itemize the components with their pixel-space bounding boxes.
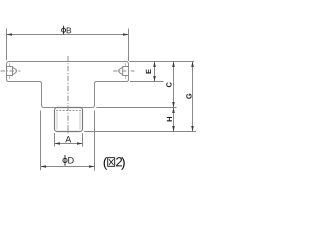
dim phiB arrow right: [123, 33, 129, 36]
part silhouette: flange + boss: [7, 62, 129, 108]
caption zu glyph box: [108, 158, 115, 167]
main vertical centerline: [67, 56, 69, 135]
dim phiB extension line right: [128, 29, 130, 62]
dim G dimension line: [192, 62, 194, 132]
dim H arrows: [172, 108, 175, 132]
dim phiD arrows: [41, 165, 95, 168]
dim G arrows: [191, 62, 194, 132]
left set screw: [7, 67, 17, 76]
dim phiB arrow left: [7, 33, 13, 36]
stub inner top line: [56, 110, 81, 112]
dim phiD extension lines: [41, 111, 95, 171]
svg-text:E: E: [144, 69, 153, 74]
label phiB: [62, 25, 72, 35]
svg-text:G: G: [184, 93, 193, 99]
right screw vertical ticks: [125, 63, 127, 78]
dim C arrows: [172, 62, 175, 108]
extension line boss bottom right: [97, 107, 177, 109]
dim A extension lines: [55, 133, 83, 147]
svg-text:): ): [121, 155, 126, 170]
svg-text:B: B: [66, 25, 72, 35]
left screw centerline: [1, 70, 21, 72]
left screw vertical ticks: [9, 63, 11, 78]
dim H dimension line: [173, 108, 175, 132]
svg-text:(: (: [103, 155, 108, 170]
svg-text:A: A: [65, 134, 71, 144]
extension line flange top right: [130, 61, 195, 63]
extension line part bottom right: [84, 131, 196, 133]
extension line flange bottom right: [130, 81, 164, 83]
label phiD: [63, 155, 75, 166]
right screw centerline: [113, 70, 135, 72]
stub outline (bottom boss, dim A): [55, 108, 83, 132]
svg-text:D: D: [67, 155, 74, 165]
right set screw: [119, 67, 129, 76]
svg-text:C: C: [165, 82, 174, 88]
dim A arrows: [55, 142, 83, 145]
dim E arrows: [153, 62, 156, 82]
dim C dimension line: [173, 62, 175, 108]
dim phiD dimension line: [41, 166, 95, 168]
stub inner side lines: [57, 112, 80, 130]
dim E dimension line: [154, 62, 156, 82]
svg-text:H: H: [165, 116, 174, 121]
dim A dimension line: [55, 143, 83, 145]
dim phiB extension line left: [6, 29, 8, 61]
dim phiB dimension line: [7, 34, 129, 36]
